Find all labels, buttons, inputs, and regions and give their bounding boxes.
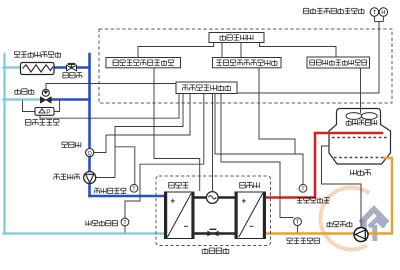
wire compressor control — [212, 94, 214, 192]
dp sensor loop left — [23, 101, 36, 112]
dp sensor loop right — [54, 101, 60, 112]
wire ambient sensors join — [374, 21, 383, 23]
svg-text:T: T — [301, 186, 305, 192]
cooling tower fill dashes row 2 — [334, 157, 385, 159]
wire fuzzy box to chilled pump cabinet — [138, 43, 214, 58]
chilled water supply pipe (blue) vertical — [88, 54, 91, 196]
wire ambient sensors to field control box — [237, 22, 379, 94]
label 冷凝器 — [240, 182, 260, 188]
evaporator 蒸发器 — [165, 192, 195, 239]
wire chilled pump control branch — [96, 177, 115, 179]
wire fuzzy box to cooling pump cabinet b — [240, 43, 242, 58]
condenser water pipe (orange) return side — [266, 158, 393, 234]
watermark logo house arrow — [361, 209, 388, 241]
label 冷却水泵 — [327, 222, 352, 227]
cooling pump cabinet 冷却水泵智能控制柜 — [213, 58, 282, 68]
label 旁通阀 — [15, 89, 34, 94]
label 压差传感器 — [25, 120, 59, 126]
fuzzy control box 模糊控制箱 — [209, 33, 264, 43]
refrigerant line top — [194, 196, 236, 198]
cyan return pipe bottom to evaporator — [4, 232, 166, 234]
cooling water pump 冷却水泵 — [354, 228, 368, 242]
blue pipe to evaporator — [90, 195, 166, 198]
chilled water return pipe (cyan) vertical left — [3, 54, 5, 234]
expansion valve — [207, 229, 218, 236]
ambient humidity sensor H — [379, 8, 387, 16]
differential pressure sensor ΔP 压差传感器 — [35, 108, 54, 116]
cyan pipe to heat exchanger — [4, 66, 22, 68]
svg-text:Q: Q — [88, 151, 92, 157]
label 温度传感器-3 — [297, 198, 330, 203]
wire orange pipe temp sensor tap — [297, 226, 299, 233]
refrigerant line bottom — [194, 232, 236, 234]
watermark logo circle arc — [320, 187, 369, 249]
field fuzzy control box 现场模糊控制箱 — [176, 82, 237, 94]
label 二通阀 — [63, 73, 82, 78]
cyan pipe to bypass valve — [4, 98, 42, 100]
wire red pipe temp sensor signal — [215, 94, 303, 185]
label 蒸发器 — [169, 182, 189, 188]
condenser water pipe (red) hot side — [266, 133, 383, 198]
condenser 冷凝器 — [235, 192, 266, 239]
compressor — [206, 192, 218, 204]
cooling tower body — [329, 109, 391, 165]
wire orange pipe temp sensor signal — [221, 94, 294, 218]
temperature sensor on chilled supply — [130, 184, 138, 192]
wire chilled pump riser — [115, 94, 183, 178]
wire fan cabinet to tower fan — [360, 68, 362, 113]
fan cabinet 风机智能控制柜(箱) — [307, 57, 370, 68]
label 流量计 — [62, 142, 81, 147]
cooling tower fan blades — [346, 113, 377, 120]
blue pipe from heat exchanger through two-way valve — [54, 66, 90, 68]
temperature sensor on chilled return — [121, 218, 129, 226]
wire ambient T sensor drop — [373, 16, 375, 22]
label 末端热交换设备 — [14, 52, 60, 57]
svg-text:T: T — [132, 186, 136, 192]
cooling tower fill dashes row 1 — [332, 137, 387, 139]
svg-text:H: H — [381, 10, 385, 16]
terminal heat exchanger 末端热交换设备 — [21, 63, 55, 75]
label 温度传感器-1 — [94, 188, 126, 193]
svg-text:T: T — [296, 220, 300, 226]
wire diff pressure sensor signal — [40, 94, 179, 119]
svg-text:T: T — [123, 220, 127, 226]
label 空调机组 — [202, 248, 229, 254]
svg-text:T: T — [373, 10, 377, 16]
bypass valve 旁通阀 — [40, 89, 51, 103]
ambient temperature sensor T — [370, 8, 378, 16]
svg-text:P: P — [46, 109, 50, 116]
label 环境温、湿度传感器 — [303, 8, 364, 13]
wire chilled pump cabinet drop — [154, 68, 200, 191]
wire cooling pump cabinet output — [259, 68, 295, 154]
wire fuzzy box to fan cabinet — [260, 43, 337, 58]
chilled pump cabinet 冷冻水泵智能控制柜 — [106, 58, 181, 68]
label 温度传感器-4 — [287, 238, 320, 243]
label 冷却塔风机 — [346, 120, 377, 125]
chilled water pump 冷冻水泵 — [84, 172, 96, 184]
control area dashed boundary — [99, 29, 392, 103]
label 冷冻水泵 — [54, 174, 80, 179]
label 冷却塔 — [351, 170, 371, 176]
flow meter 流量计 — [86, 149, 94, 158]
wire blue pipe temp sensor branch — [115, 147, 135, 185]
wire bypass valve control — [46, 84, 176, 90]
two-way valve 二通阀 — [67, 63, 77, 71]
wire fuzzy box to cooling pump cabinet a — [221, 43, 223, 58]
wire cyan pipe temp sensor tap — [124, 226, 126, 233]
label 温度传感器-2 — [86, 221, 118, 226]
blue pipe from bypass valve — [51, 98, 90, 100]
tower basin outlet pipe to cooling pump — [322, 146, 362, 228]
wire ambient H sensor drop — [382, 16, 384, 22]
wire flow meter signal — [94, 94, 190, 153]
air conditioning unit dashed enclosure — [156, 176, 271, 246]
wire cyan pipe temp sensor signal — [125, 94, 204, 219]
temperature sensor on cooling hot pipe — [299, 184, 307, 192]
temperature sensor on cooling return pipe — [294, 218, 302, 226]
